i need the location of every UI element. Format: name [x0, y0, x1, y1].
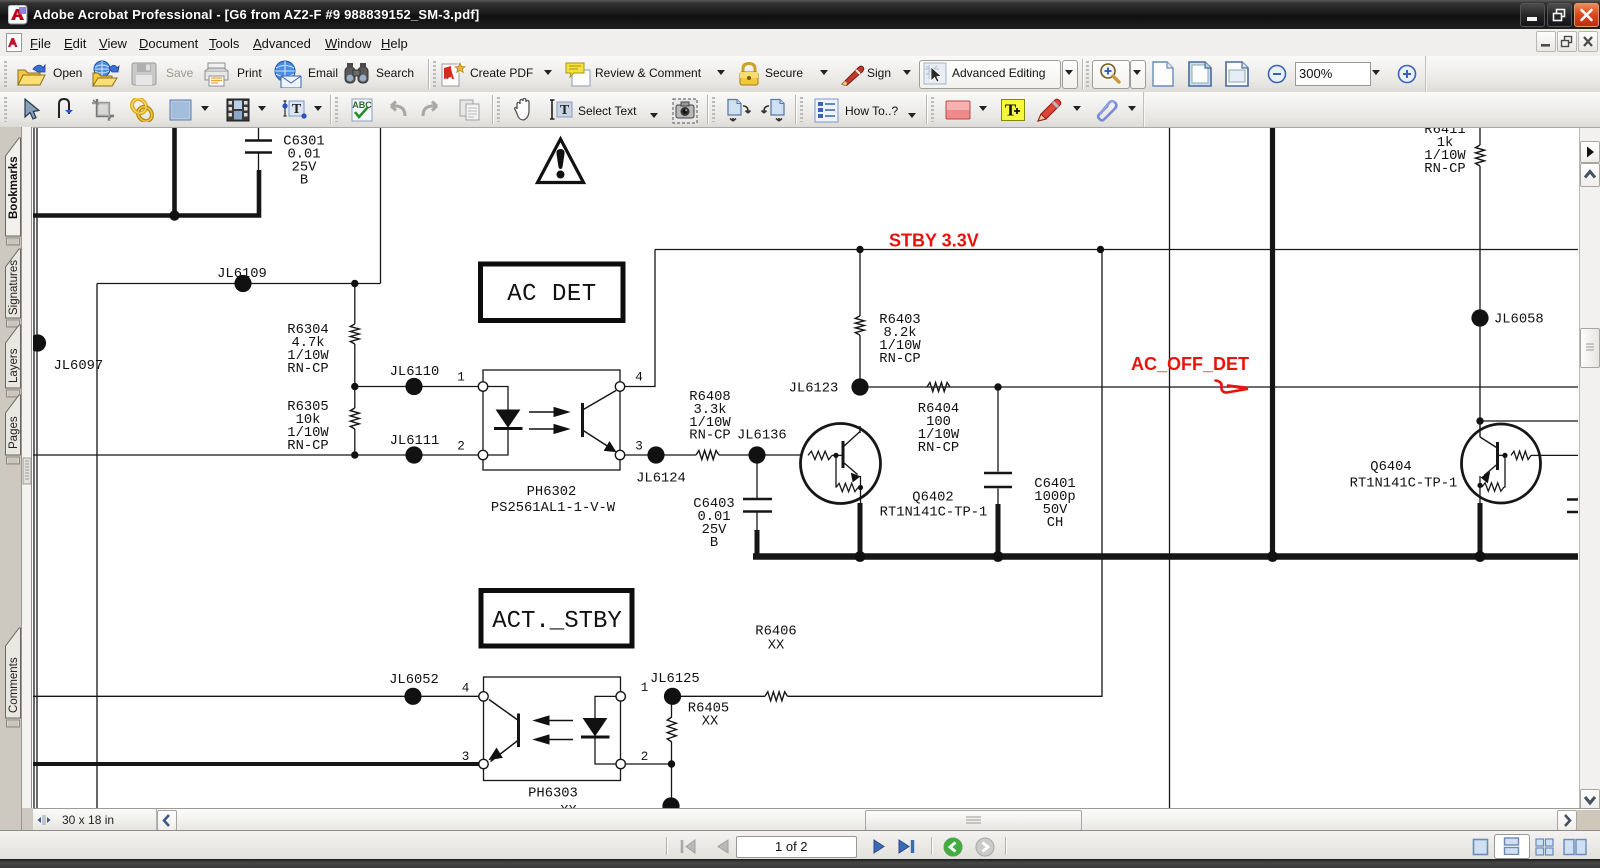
wire AC_OFF_DET rail (y=387) — [860, 386, 1578, 388]
wire C6403 thick stub to ground bus — [755, 530, 760, 557]
svg-text:JL6111: JL6111 — [390, 434, 440, 449]
wire horizontal JL6109 net (y=283.5) — [97, 283, 381, 285]
junction bulge on ground bus at x=1480 — [1475, 551, 1486, 562]
svg-text:RN-CP: RN-CP — [1424, 162, 1465, 177]
optocoupler PH6302 — [457, 370, 643, 516]
wire STBY 3.3V rail (y=249.5) — [655, 249, 1578, 251]
wire long vertical at far left (x=34) — [33, 128, 35, 808]
junction bulge on ground bus at x=860 — [855, 551, 866, 562]
optocoupler PH6303 — [462, 677, 649, 819]
svg-text:Bookmarks: Bookmarks — [8, 156, 20, 219]
svg-text:AC DET: AC DET — [507, 281, 596, 308]
svg-text:Pages: Pages — [8, 416, 20, 449]
PH6303 internal LED — [595, 696, 616, 764]
svg-text:RN-CP: RN-CP — [287, 439, 328, 454]
junction node on STBY rail (x=1100.5) — [1097, 246, 1104, 253]
wire PH6302 pin1 net (y=386.5) — [355, 386, 479, 388]
resistor R6408 — [696, 451, 719, 460]
wire PH6302 pin4 up and STBY rail corner (x=655) — [625, 250, 655, 387]
wire ACT._STBY input net (y=696.3) — [33, 695, 479, 697]
warning triangle symbol — [538, 139, 584, 183]
resistor R6403 — [855, 316, 864, 335]
junction node (354.8,455) — [351, 451, 358, 458]
node JL6123 — [851, 378, 868, 395]
wire C6301 top lead to top edge — [258, 128, 260, 140]
svg-text:T: T — [1005, 101, 1017, 120]
junction node (998,387) — [994, 383, 1001, 390]
wire C6401 lower lead — [997, 489, 999, 507]
junction node on STBY rail (x=860) — [856, 246, 863, 253]
svg-text:4: 4 — [635, 371, 643, 385]
svg-text:ABC: ABC — [352, 100, 372, 110]
svg-text:JL6136: JL6136 — [737, 429, 787, 444]
resistor R6305 — [350, 408, 359, 429]
svg-text:Q6402: Q6402 — [912, 491, 953, 506]
junction bulge on ground bus at x=998 — [993, 551, 1004, 562]
PH6303 pin 2 — [616, 759, 625, 768]
svg-text:XX: XX — [768, 639, 785, 654]
wire R6405 top lead — [671, 696, 673, 717]
svg-text:1: 1 — [457, 371, 465, 385]
svg-text:JL6125: JL6125 — [650, 672, 700, 687]
wire Q6404 base net to right edge (y=455.4) — [1540, 454, 1578, 456]
svg-text:JL6110: JL6110 — [390, 365, 440, 380]
PH6302 light arrows — [529, 412, 556, 429]
junction bulge on ground bus at x=1272.5 — [1267, 551, 1278, 562]
svg-text:R6406: R6406 — [755, 625, 796, 640]
node JL6110 — [405, 378, 422, 395]
capacitor C6403 — [743, 499, 772, 512]
svg-text:3: 3 — [635, 440, 643, 454]
ACT._STBY title box — [481, 591, 632, 647]
node at bottom edge (clipped) — [662, 797, 679, 814]
wire C6401 thick stub to ground bus — [996, 504, 1001, 557]
wire thick vertical from top edge to bus (x=174.5) — [172, 128, 177, 216]
wire C6403 lower lead — [756, 512, 758, 533]
wire R6405 bottom lead to bottom edge — [671, 742, 673, 806]
red ink annotation arrow — [1216, 381, 1248, 393]
capacitor at right edge (partially visible) — [1567, 500, 1578, 513]
wire C6401 upper lead (x=998) — [997, 387, 999, 472]
wire thick vertical to ground bus (x=1272.5) — [1270, 128, 1275, 557]
svg-text:JL6052: JL6052 — [389, 673, 439, 688]
wire C6403 upper lead (x=757) — [756, 455, 758, 498]
svg-text:1: 1 — [641, 681, 649, 695]
node JL6136 — [748, 446, 765, 463]
PH6302 pin 1 — [478, 382, 487, 391]
node JL6058 — [1471, 309, 1488, 326]
capacitor C6401 — [984, 473, 1012, 487]
node JL6124 — [647, 446, 664, 463]
wire long vertical at far left (x=37) — [36, 128, 38, 808]
resistor R6405 — [667, 717, 676, 742]
PH6303 pin 3 — [479, 759, 488, 768]
wire R6411 branch from top edge (x=1480) — [1479, 128, 1481, 421]
svg-text:PS2561AL1-1-V-W: PS2561AL1-1-V-W — [491, 501, 616, 516]
svg-text:3: 3 — [462, 750, 470, 764]
wire vertical from top edge (x=380.5) — [380, 128, 382, 284]
junction node (1480,421) — [1476, 417, 1483, 424]
svg-text:JL6097: JL6097 — [54, 359, 104, 374]
svg-text:RN-CP: RN-CP — [287, 362, 328, 377]
svg-text:JL6124: JL6124 — [636, 472, 686, 487]
junction dot on thick bus — [169, 210, 179, 220]
svg-text:PH6302: PH6302 — [527, 485, 577, 500]
wire thin vertical full height (x=1169.5) — [1169, 128, 1171, 808]
svg-text:RT1N141C-TP-1: RT1N141C-TP-1 — [880, 506, 988, 521]
node JL6111 — [405, 446, 422, 463]
svg-text:RT1N141C-TP-1: RT1N141C-TP-1 — [1350, 477, 1458, 492]
svg-text:CH: CH — [1047, 516, 1064, 531]
wire JL6125 to R6406 and corner up to STBY rail (x=1102) — [681, 250, 1102, 697]
wire PH6302 pin3 to Q6402 (y=455) — [625, 454, 801, 456]
svg-text:AC_OFF_DET: AC_OFF_DET — [1131, 354, 1249, 374]
wire PH6303 pin2 to R6405 (y=764) — [625, 763, 671, 765]
node JL6052 — [404, 688, 421, 705]
svg-text:RN-CP: RN-CP — [689, 429, 730, 444]
wire Q6404 emitter thick stub to ground bus — [1478, 503, 1483, 557]
junction node (354.8,283.5) — [351, 280, 358, 287]
capacitor C6301 — [245, 141, 272, 153]
ground bus thick horizontal (y=556.5) — [753, 553, 1578, 560]
svg-text:T: T — [292, 102, 302, 117]
svg-text:PH6303: PH6303 — [528, 787, 578, 802]
AC DET title box — [481, 264, 624, 321]
PH6302 pin 3 — [615, 450, 624, 459]
svg-text:Comments: Comments — [8, 657, 20, 713]
wire C6301 bottom lead — [258, 154, 260, 171]
wire thick bus top-left with corner up to C6301 — [33, 170, 259, 216]
PH6303 phototransistor — [517, 714, 520, 748]
wire PH6302 pin2 net (y=455) — [33, 454, 478, 456]
svg-text:4: 4 — [462, 682, 470, 696]
svg-text:B: B — [710, 536, 718, 551]
PH6303 pin 4 — [479, 692, 488, 701]
PH6303 light arrows pointing left — [547, 721, 573, 740]
svg-text:STBY 3.3V: STBY 3.3V — [889, 231, 979, 251]
svg-text:2: 2 — [641, 750, 649, 764]
svg-text:T: T — [560, 103, 570, 118]
svg-text:Layers: Layers — [8, 348, 20, 383]
svg-text:XX: XX — [560, 804, 577, 808]
wire vertical through R6304/R6305 (x=354.8) — [354, 284, 356, 456]
svg-text:B: B — [300, 174, 308, 189]
svg-text:XX: XX — [702, 715, 719, 730]
wire thick ACT._STBY lower net (y=764) — [33, 762, 479, 766]
svg-text:Q6404: Q6404 — [1370, 460, 1411, 475]
svg-text:ACT._STBY: ACT._STBY — [492, 608, 622, 635]
svg-text:2: 2 — [457, 440, 465, 454]
wire R6403 branch (x=860) — [859, 250, 861, 388]
resistor R6406 — [765, 692, 788, 701]
svg-text:JL6058: JL6058 — [1494, 313, 1544, 328]
junction node (354.8,386.5) — [351, 383, 358, 390]
svg-text:JL6123: JL6123 — [789, 382, 839, 397]
node JL6125 — [664, 688, 681, 705]
PH6302 internal LED — [488, 387, 509, 456]
svg-text:RN-CP: RN-CP — [879, 352, 920, 367]
svg-text:Signatures: Signatures — [8, 260, 20, 315]
wire Q6404 collector net (y=421) — [1480, 420, 1578, 422]
junction node (671.5,764) — [668, 760, 675, 767]
resistor R6304 — [350, 324, 359, 344]
PH6302 pin 2 — [478, 450, 487, 459]
resistor R6404 — [927, 383, 950, 392]
PH6302 phototransistor — [581, 403, 584, 437]
node JL6109 — [234, 275, 251, 292]
svg-text:RN-CP: RN-CP — [918, 441, 959, 456]
node JL6097 — [29, 334, 46, 351]
transistor Q6404 — [1462, 421, 1541, 504]
PH6303 pin 1 — [616, 692, 625, 701]
wire vertical left branch (x=97) — [96, 284, 98, 809]
resistor R6411 (top right, label clipped) — [1476, 145, 1485, 166]
svg-text:JL6109: JL6109 — [217, 267, 267, 282]
transistor Q6402 — [801, 424, 881, 505]
PH6302 pin 4 — [615, 382, 624, 391]
wire Q6402 emitter thick stub to ground bus — [858, 503, 863, 557]
